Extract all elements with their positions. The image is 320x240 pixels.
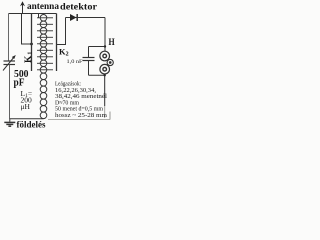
wire bottom return faint bbox=[109, 112, 111, 120]
svg-text:pF: pF bbox=[14, 78, 25, 89]
ground symbol bbox=[4, 119, 15, 127]
text block coil specs bbox=[55, 81, 107, 120]
diode D detektor bbox=[70, 14, 77, 21]
wire to variable capacitor bbox=[8, 14, 10, 62]
svg-text:1,0 nF: 1,0 nF bbox=[67, 59, 83, 65]
wire antenna drop bbox=[22, 14, 32, 45]
svg-text:földelés: földelés bbox=[17, 120, 46, 130]
node junction at phones top bbox=[104, 45, 106, 47]
node junction on K1 bus bbox=[30, 43, 33, 46]
svg-text:H: H bbox=[109, 37, 115, 47]
wire K2 to diode bbox=[57, 18, 66, 45]
headphones H bbox=[100, 51, 113, 74]
wire phones bottom bbox=[89, 74, 105, 76]
switch K2 bus bbox=[56, 14, 58, 72]
svg-text:hossz ~ 25-28 mm: hossz ~ 25-28 mm bbox=[55, 112, 107, 119]
variable capacitor C1 bbox=[3, 55, 16, 71]
svg-text:μH: μH bbox=[21, 102, 31, 111]
wire right drop bbox=[104, 18, 106, 52]
wire phones top branch bbox=[89, 46, 106, 48]
coil taps bbox=[37, 18, 53, 70]
svg-text:detektor: detektor bbox=[60, 1, 97, 11]
wire phones return drop bbox=[104, 75, 106, 106]
capacitor C2 bbox=[88, 47, 90, 58]
antenna bbox=[20, 1, 25, 13]
svg-text:antenna: antenna bbox=[27, 1, 60, 11]
switch K1 bus bbox=[31, 14, 33, 72]
wire diode line bbox=[66, 17, 106, 19]
wire top rail bbox=[9, 13, 57, 15]
coil L1 turns bbox=[40, 14, 47, 118]
wire capacitor to ground bbox=[9, 65, 11, 119]
wire ground bottom bbox=[10, 118, 44, 120]
wire tick rail to first tap bbox=[38, 14, 40, 18]
